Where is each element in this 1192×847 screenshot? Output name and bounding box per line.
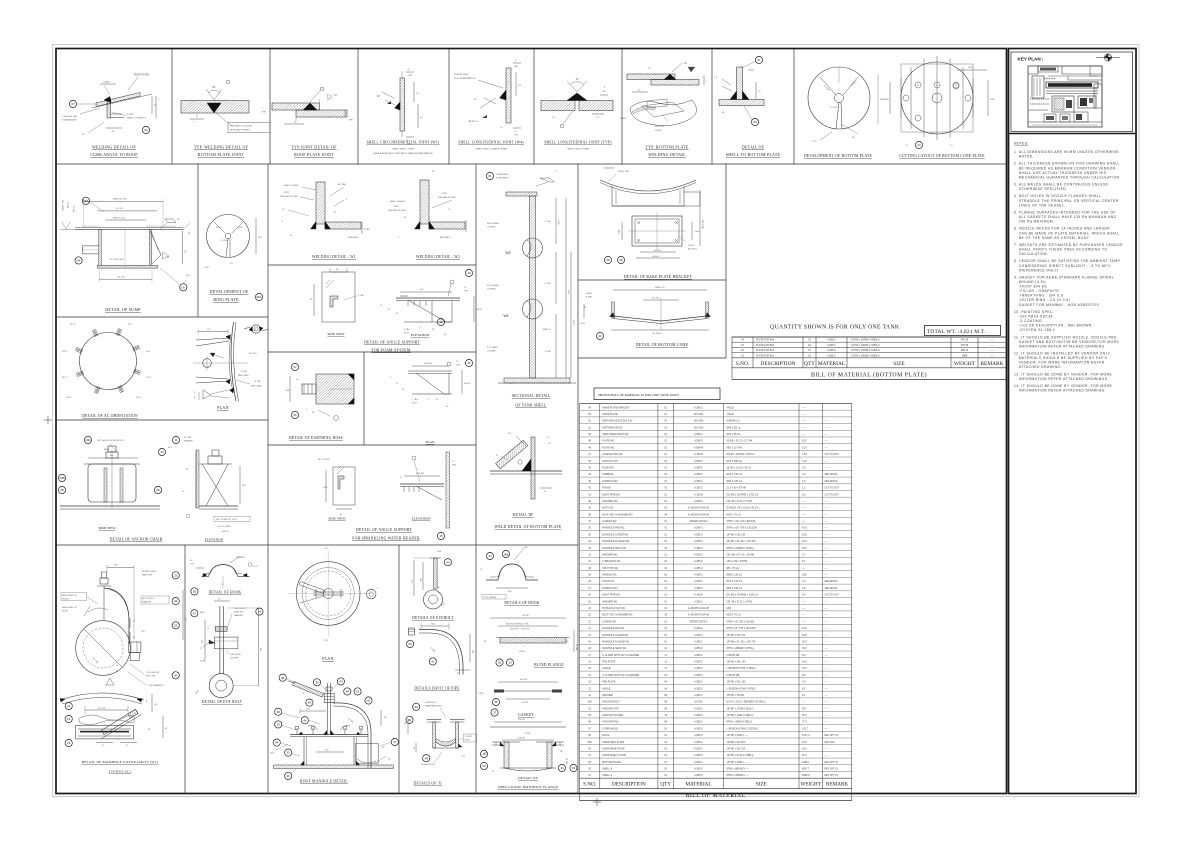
svg-text:40: 40 bbox=[116, 671, 118, 673]
svg-text:METAL AND REWELD: METAL AND REWELD bbox=[230, 129, 251, 132]
svg-text:THK: THK bbox=[349, 120, 354, 122]
svg-text:----: ---- bbox=[825, 501, 828, 503]
svg-text:(SINGLE BEVEL BUTT JOINT WITH: (SINGLE BEVEL BUTT JOINT WITH COMPLETE P… bbox=[373, 152, 433, 155]
svg-text:SEC. PLATE OD. 6?20: SEC. PLATE OD. 6?20 bbox=[216, 518, 237, 521]
svg-text:KORGED LG: KORGED LG bbox=[425, 702, 437, 704]
svg-text:CALCULATION.: CALCULATION. bbox=[1019, 252, 1049, 256]
svg-text:HOLE THK.: HOLE THK. bbox=[618, 171, 630, 173]
svg-text:24: 24 bbox=[258, 610, 262, 614]
svg-text:TYP. BOTTOM PLATE: TYP. BOTTOM PLATE bbox=[645, 145, 688, 150]
svg-text:05A: 05A bbox=[587, 741, 592, 744]
north arrow symbol bbox=[1096, 54, 1120, 61]
svg-text:SIDE VIEW: SIDE VIEW bbox=[327, 332, 345, 336]
svg-text:A 285-C: A 285-C bbox=[694, 547, 703, 550]
svg-text:8 THK: 8 THK bbox=[364, 229, 370, 231]
svg-text:SUMP SHELL PLATE: SUMP SHELL PLATE bbox=[602, 754, 626, 757]
svg-text:10THK x OD.720: 10THK x OD.720 bbox=[727, 747, 746, 750]
svg-text:LINES OF THE VESSEL.: LINES OF THE VESSEL. bbox=[1019, 203, 1066, 207]
svg-text:38: 38 bbox=[277, 710, 281, 714]
svg-text:FOR 50 NB: FOR 50 NB bbox=[727, 674, 740, 677]
svg-text:A 508-W: A 508-W bbox=[694, 446, 704, 449]
svg-text:-COLOR DESCRIPTION : MID BROWN: -COLOR DESCRIPTION : MID BROWN bbox=[1019, 324, 1092, 328]
svg-text:-HOOP 304 SS: -HOOP 304 SS bbox=[1019, 285, 1048, 289]
svg-text:GASKET-W1: GASKET-W1 bbox=[602, 620, 617, 623]
svg-text:Ø 625: Ø 625 bbox=[525, 733, 532, 735]
svg-text:52.8: 52.8 bbox=[802, 533, 807, 536]
svg-text:CUTTING LAYOUT OF BOTTOM CONE: CUTTING LAYOUT OF BOTTOM CONE PLATE bbox=[899, 154, 985, 158]
svg-text:GKT. 2 NOS.: GKT. 2 NOS. bbox=[318, 459, 330, 461]
svg-text:13. IT SHOULD BE DONE BY VENDO: 13. IT SHOULD BE DONE BY VENDOR, FOR MOR… bbox=[1014, 372, 1113, 376]
svg-text:TAPER 1:4: TAPER 1:4 bbox=[468, 120, 479, 123]
svg-text:OD. 85 x ID 22 x 3 THK: OD. 85 x ID 22 x 3 THK bbox=[727, 600, 753, 603]
detail: development of ring plate bbox=[204, 215, 262, 270]
svg-text:35: 35 bbox=[277, 723, 281, 727]
svg-text:Ø12 X 270 LG: Ø12 X 270 LG bbox=[727, 580, 743, 583]
detail: details of eyebolt (right cell) bbox=[410, 551, 446, 609]
svg-text:PAD PLATE: PAD PLATE bbox=[238, 374, 249, 377]
svg-text:SHELL: SHELL bbox=[620, 118, 627, 120]
svg-text:2988: 2988 bbox=[962, 354, 968, 357]
svg-text:INFORMATION REFER ATTACHED DRA: INFORMATION REFER ATTACHED DRAWING. bbox=[1019, 344, 1106, 348]
svg-text:A 285-C: A 285-C bbox=[827, 354, 836, 357]
detail: blind flange bbox=[484, 615, 577, 653]
svg-text:10 THK: 10 THK bbox=[66, 202, 68, 209]
svg-text:A 285-C: A 285-C bbox=[694, 440, 703, 443]
detail: detail of AC orientation bbox=[62, 324, 152, 399]
svg-text:10THK x 50L 140: 10THK x 50L 140 bbox=[727, 681, 747, 684]
svg-text:WOUND (4.5t): WOUND (4.5t) bbox=[1019, 280, 1046, 284]
left margin tick bbox=[44, 419, 52, 421]
svg-text:HUTELOCK NUT-W1: HUTELOCK NUT-W1 bbox=[602, 607, 626, 610]
svg-text:10: 10 bbox=[492, 771, 494, 773]
svg-text:SLEEVE PIPE-W2: SLEEVE PIPE-W2 bbox=[602, 453, 623, 456]
svg-text:ELEVATION: ELEVATION bbox=[205, 538, 224, 542]
svg-text:14THK x ID. 512 x OD.730: 14THK x ID. 512 x OD.730 bbox=[727, 640, 757, 643]
svg-text:(PAD WALL): (PAD WALL) bbox=[348, 236, 359, 239]
svg-text:A 285-C: A 285-C bbox=[694, 761, 703, 764]
svg-text:10A: 10A bbox=[85, 438, 90, 442]
svg-text:B3: B3 bbox=[566, 641, 568, 643]
svg-text:'W4': 'W4' bbox=[503, 314, 509, 318]
svg-text:6 THK: 6 THK bbox=[545, 221, 551, 223]
svg-text:16: 16 bbox=[482, 752, 486, 756]
svg-text:A 285-C: A 285-C bbox=[694, 487, 703, 490]
svg-text:SEE DETAIL: SEE DETAIL bbox=[825, 480, 839, 483]
svg-text:WASHER-W2: WASHER-W2 bbox=[602, 500, 618, 503]
svg-text:RING OD. 820: RING OD. 820 bbox=[113, 199, 127, 201]
svg-text:PLATE-W2: PLATE-W2 bbox=[602, 440, 615, 443]
grid line h y317 bbox=[56, 316, 268, 318]
balloons davit section bbox=[65, 715, 72, 722]
svg-text:BILL OF MATERIAL: BILL OF MATERIAL bbox=[685, 793, 745, 799]
svg-text:R=557: R=557 bbox=[216, 227, 222, 229]
svg-text:14. IT SHOULD BE DONE BY VENDO: 14. IT SHOULD BE DONE BY VENDOR, FOR MOR… bbox=[1014, 384, 1113, 388]
detail: shell longitudinal joint (W4) bbox=[454, 60, 522, 137]
detail: shell longitudinal joint (TYP) bbox=[541, 78, 613, 128]
svg-text:5THK x ID. 610 x OD.625: 5THK x ID. 610 x OD.625 bbox=[727, 620, 755, 623]
svg-text:4. BOLT HOLES IN NOZZLE FLANGE: 4. BOLT HOLES IN NOZZLE FLANGES SHALL bbox=[1014, 194, 1102, 198]
svg-text:L 50X50X6 6THK X 420LG: L 50X50X6 6THK X 420LG bbox=[727, 687, 756, 690]
svg-text:Ø5Ø x 130 LG: Ø5Ø x 130 LG bbox=[727, 574, 743, 577]
svg-text:26: 26 bbox=[193, 590, 197, 594]
svg-text:----: ---- bbox=[825, 534, 828, 536]
svg-text:12A INSR: 12A INSR bbox=[236, 556, 245, 559]
svg-text:HOLE: HOLE bbox=[465, 740, 471, 742]
svg-text:A 285-C: A 285-C bbox=[694, 540, 703, 543]
detail: typ welding detail of bottom plate joint bbox=[181, 80, 270, 132]
svg-text:19: 19 bbox=[67, 717, 71, 721]
svg-text:298.44: 298.44 bbox=[961, 349, 969, 352]
svg-text:SHELL THCK = 6 MM TO 8 MM: SHELL THCK = 6 MM TO 8 MM bbox=[476, 149, 507, 151]
svg-text:E: E bbox=[1106, 56, 1108, 60]
svg-text:DETAIL OF HOOK: DETAIL OF HOOK bbox=[209, 591, 242, 595]
svg-text:20: 20 bbox=[508, 661, 512, 665]
svg-text:OD. 530: OD. 530 bbox=[98, 708, 106, 710]
detail: angle support sprinkling - plan bbox=[390, 359, 473, 408]
svg-text:10 THK: 10 THK bbox=[221, 240, 228, 242]
svg-text:WASHER-W1: WASHER-W1 bbox=[602, 553, 618, 556]
svg-text:8.22: 8.22 bbox=[802, 440, 807, 443]
svg-text:(REFERENCE ONLY): (REFERENCE ONLY) bbox=[1019, 268, 1059, 272]
svg-text:#5 NOW: #5 NOW bbox=[465, 736, 472, 738]
svg-text:Ø20 x 35 LG: Ø20 x 35 LG bbox=[727, 433, 741, 436]
detail: anchor chair elevation bbox=[182, 450, 250, 533]
svg-text:19: 19 bbox=[572, 766, 576, 770]
svg-text:R600 .D.: R600 .D. bbox=[543, 329, 551, 331]
grid line h y445 mid bbox=[268, 444, 476, 446]
svg-text:NAME PLATE BRACKET: NAME PLATE BRACKET bbox=[602, 406, 630, 409]
svg-text:A 285-C: A 285-C bbox=[694, 741, 703, 744]
grid line: top row bottom bbox=[56, 163, 1006, 165]
svg-text:60°: 60° bbox=[212, 86, 216, 89]
svg-text:SUMP BASE PLATE: SUMP BASE PLATE bbox=[602, 747, 625, 750]
svg-text:EARTHING BOSS: EARTHING BOSS bbox=[602, 426, 622, 429]
svg-text:ROD NUT-W2: ROD NUT-W2 bbox=[602, 460, 618, 463]
svg-text:ROOF PLATE JOINT: ROOF PLATE JOINT bbox=[294, 152, 334, 157]
svg-text:157.5': 157.5' bbox=[136, 397, 142, 399]
svg-text:SIDE VIEW: SIDE VIEW bbox=[98, 526, 116, 530]
svg-text:----: ---- bbox=[990, 339, 993, 342]
svg-text:59: 59 bbox=[619, 258, 623, 262]
svg-text:A 106-B: A 106-B bbox=[694, 453, 703, 456]
svg-text:DETAIL OF AC ORIENTATION: DETAIL OF AC ORIENTATION bbox=[82, 414, 138, 418]
svg-text:SHELL-1: SHELL-1 bbox=[602, 774, 613, 777]
svg-text:05: 05 bbox=[182, 285, 186, 289]
svg-text:PLATE-W2: PLATE-W2 bbox=[602, 446, 615, 449]
svg-text:10THK x 50L 140: 10THK x 50L 140 bbox=[727, 661, 747, 664]
svg-text:TOP FLANGE: TOP FLANGE bbox=[484, 596, 497, 599]
svg-text:----: ---- bbox=[825, 748, 828, 750]
svg-text:HANDLE-W1: HANDLE-W1 bbox=[602, 574, 617, 577]
svg-text:05A: 05A bbox=[83, 199, 88, 203]
svg-text:4 NOS.: 4 NOS. bbox=[688, 245, 695, 247]
detail: typ bottom plate welding detail bbox=[620, 62, 708, 132]
svg-text:SHELL CIRCUMFERENTIAL JOINT (W: SHELL CIRCUMFERENTIAL JOINT (W1) bbox=[367, 141, 440, 145]
svg-text:10THK x 2650 x ----: 10THK x 2650 x ---- bbox=[727, 761, 749, 764]
svg-text:Q 8 HOLE FOR: Q 8 HOLE FOR bbox=[146, 672, 160, 674]
detail: welding detail W1 bbox=[280, 182, 370, 239]
svg-text:----: ---- bbox=[825, 648, 828, 650]
svg-text:270': 270' bbox=[324, 640, 329, 642]
svg-text:----: ---- bbox=[825, 608, 828, 610]
svg-text:11: 11 bbox=[174, 438, 177, 442]
svg-text:34: 34 bbox=[560, 766, 564, 770]
svg-text:280: 280 bbox=[419, 578, 421, 581]
svg-text:R= #120: R= #120 bbox=[249, 353, 258, 355]
svg-text:Ø12 X 370 LG: Ø12 X 370 LG bbox=[727, 473, 743, 476]
svg-text:6171.3: 6171.3 bbox=[802, 734, 810, 737]
svg-text:10THK x 2000M X 7936LG: 10THK x 2000M X 7936LG bbox=[851, 344, 880, 347]
svg-text:ANCHOR GUSSET: ANCHOR GUSSET bbox=[602, 714, 624, 717]
svg-text:33.6: 33.6 bbox=[802, 747, 807, 750]
svg-text:33: 33 bbox=[287, 751, 291, 755]
svg-text:22: 22 bbox=[494, 700, 498, 704]
svg-text:----: ---- bbox=[802, 620, 805, 623]
svg-text:A 285-C: A 285-C bbox=[694, 774, 703, 777]
svg-text:RF. PAD: RF. PAD bbox=[338, 183, 347, 186]
detail: pad plate plan (curved) bbox=[193, 322, 262, 401]
svg-text:0.82: 0.82 bbox=[802, 574, 807, 577]
svg-text:02: 02 bbox=[144, 128, 148, 132]
svg-text:WELD DETAIL OF BOTTOM PLATE: WELD DETAIL OF BOTTOM PLATE bbox=[495, 525, 562, 529]
svg-text:450: 450 bbox=[457, 673, 460, 675]
svg-text:WELDING DETAIL : W2: WELDING DETAIL : W2 bbox=[416, 255, 460, 259]
svg-text:-3 COATING: -3 COATING bbox=[1019, 319, 1042, 323]
svg-text:DO.5M x SCH40E x 1150 LG: DO.5M x SCH40E x 1150 LG bbox=[727, 594, 759, 597]
svg-text:57: 57 bbox=[293, 365, 297, 369]
svg-text:-1.82': -1.82' bbox=[204, 267, 210, 269]
svg-text:WELDING DETAIL : W1: WELDING DETAIL : W1 bbox=[312, 255, 356, 259]
svg-text:WELDING DETAIL OF: WELDING DETAIL OF bbox=[92, 145, 137, 150]
svg-text:PAD PLATE: PAD PLATE bbox=[602, 681, 615, 684]
detail: angle support foam - elevation bbox=[380, 269, 483, 336]
svg-text:35THK x OD.88: 35THK x OD.88 bbox=[727, 694, 745, 697]
svg-text:9. GASKET FOR ASME STANDARD FL: 9. GASKET FOR ASME STANDARD FLANGE SPIRA… bbox=[1014, 275, 1114, 279]
svg-text:----: ---- bbox=[825, 682, 828, 684]
svg-text:8 THK: 8 THK bbox=[241, 371, 247, 373]
svg-text:ROOF PLATE: ROOF PLATE bbox=[134, 74, 149, 77]
svg-text:SLOT: SLOT bbox=[412, 403, 418, 405]
svg-text:OD. 750x6 THK: OD. 750x6 THK bbox=[110, 259, 125, 261]
svg-text:1.99: 1.99 bbox=[802, 453, 807, 456]
svg-text:PLATE FOR 83A: PLATE FOR 83A bbox=[756, 344, 774, 347]
svg-text:Ø40 X 50 Lg: Ø40 X 50 Lg bbox=[727, 426, 741, 429]
svg-text:1.97': 1.97' bbox=[812, 141, 817, 143]
svg-text:BE OF THE SAME AS VESSEL BODY.: BE OF THE SAME AS VESSEL BODY. bbox=[1019, 236, 1090, 240]
svg-text:MANHOLE NECK-W2: MANHOLE NECK-W2 bbox=[602, 547, 627, 550]
svg-text:SS 504: SS 504 bbox=[695, 701, 704, 704]
svg-text:49: 49 bbox=[408, 718, 412, 722]
svg-text:09: 09 bbox=[156, 488, 160, 492]
svg-text:WASHER.: WASHER. bbox=[234, 614, 244, 617]
svg-text:4037.7: 4037.7 bbox=[802, 768, 810, 771]
svg-text:2040 3°°: 2040 3°° bbox=[930, 133, 938, 135]
svg-text:3 HEX NUTS: 3 HEX NUTS bbox=[234, 608, 246, 610]
svg-text:FULL PENETRATION: FULL PENETRATION bbox=[454, 77, 476, 80]
svg-text:CURB ANGLE: CURB ANGLE bbox=[62, 119, 77, 122]
svg-text:1.20: 1.20 bbox=[802, 460, 807, 463]
svg-text:625 OD.: 625 OD. bbox=[520, 679, 528, 681]
svg-text:----: ---- bbox=[825, 434, 828, 436]
svg-text:M20 X 70 LG: M20 X 70 LG bbox=[727, 614, 741, 617]
svg-text:247.5': 247.5' bbox=[62, 377, 68, 379]
svg-text:5THK x OD. 510 x BO.625: 5THK x OD. 510 x BO.625 bbox=[727, 520, 756, 523]
boxed note: shown bill of material is for one tank only bbox=[594, 388, 720, 400]
svg-text:250 Ra MAXIMUM.: 250 Ra MAXIMUM. bbox=[1019, 220, 1055, 224]
svg-text:DN 65 x SCH40 x 200 LG: DN 65 x SCH40 x 200 LG bbox=[727, 453, 755, 456]
svg-text:DESCRIPTION: DESCRIPTION bbox=[612, 782, 646, 788]
svg-text:SEE DETAIL OF: SEE DETAIL OF bbox=[62, 594, 77, 597]
svg-text:STRADDLE THE PRINCIPAL OR VERT: STRADDLE THE PRINCIPAL OR VERTICAL CENTE… bbox=[1019, 199, 1119, 203]
svg-text:01: 01 bbox=[757, 58, 761, 62]
svg-text:A 285-C: A 285-C bbox=[694, 640, 703, 643]
svg-text:INFORMATION REFER ATTACHED DRA: INFORMATION REFER ATTACHED DRAWING. bbox=[1019, 389, 1106, 393]
detail: typ joint detail of roof plate joint bbox=[262, 87, 354, 124]
svg-text:A 285-C: A 285-C bbox=[694, 580, 703, 583]
svg-text:45: 45 bbox=[408, 642, 412, 646]
svg-text:(45): (45) bbox=[141, 631, 145, 633]
svg-text:690/TRG: 690/TRG bbox=[416, 473, 425, 475]
detail: angle support foam - side view bbox=[310, 268, 364, 322]
grid line v x185 lower bbox=[184, 545, 186, 794]
svg-text:COURSE: COURSE bbox=[487, 289, 496, 291]
svg-text:10B: 10B bbox=[59, 476, 64, 480]
svg-text:14THK x ID. 512 x OD.130: 14THK x ID. 512 x OD.130 bbox=[727, 540, 757, 543]
svg-text:52.8: 52.8 bbox=[802, 634, 807, 637]
svg-text:A 285-C: A 285-C bbox=[694, 667, 703, 670]
svg-text:44: 44 bbox=[303, 718, 307, 722]
svg-text:(HD.2): (HD.2) bbox=[222, 531, 229, 533]
svg-text:6 THK: 6 THK bbox=[545, 283, 551, 285]
svg-text:DAVIT PIPE-W2: DAVIT PIPE-W2 bbox=[602, 493, 620, 496]
svg-text:----: ---- bbox=[825, 702, 828, 704]
svg-text:----: ---- bbox=[802, 420, 805, 423]
grid line h y352 mid bbox=[268, 351, 476, 353]
svg-text:01: 01 bbox=[488, 174, 492, 178]
svg-text:255: 255 bbox=[184, 250, 186, 253]
grid line v x476 bbox=[475, 164, 477, 794]
svg-text:3. ALL WELDS SHALL BE CONTINUO: 3. ALL WELDS SHALL BE CONTINUOUS UNLESS bbox=[1014, 183, 1109, 187]
svg-text:----: ---- bbox=[825, 441, 828, 443]
svg-text:2 1/2: 2 1/2 bbox=[461, 756, 465, 758]
svg-text:30: 30 bbox=[174, 673, 178, 677]
svg-text:8: 8 bbox=[194, 392, 195, 394]
svg-text:DETAIL OF SUMP: DETAIL OF SUMP bbox=[105, 307, 141, 312]
svg-text:----: ---- bbox=[825, 561, 828, 563]
table: bill of material (bottom plate) bbox=[732, 337, 1006, 380]
svg-text:-OUTER RING : CS (H 0.6): -OUTER RING : CS (H 0.6) bbox=[1019, 298, 1071, 302]
svg-text:10 THK: 10 THK bbox=[830, 107, 838, 109]
svg-text:PLAN: PLAN bbox=[426, 440, 435, 444]
svg-text:100 x 130 x 10THK: 100 x 130 x 10THK bbox=[727, 560, 748, 563]
svg-text:M62 x 10 THK: M62 x 10 THK bbox=[727, 446, 743, 449]
svg-text:8: 8 bbox=[194, 397, 195, 399]
svg-text:A-193-B7/A 194-2H: A-193-B7/A 194-2H bbox=[688, 507, 709, 510]
svg-text:REF. SHT 03: REF. SHT 03 bbox=[825, 762, 839, 764]
svg-text:DETAIL OF MANHOLE COVER DAVIT: DETAIL OF MANHOLE COVER DAVIT (W1) bbox=[82, 760, 159, 764]
svg-text:101.7: 101.7 bbox=[802, 727, 809, 730]
svg-text:SECTIONAL DETAIL: SECTIONAL DETAIL bbox=[512, 394, 551, 398]
svg-text:48: 48 bbox=[346, 690, 350, 694]
detail: cutting layout of bottom cone plate circle bbox=[884, 56, 995, 147]
svg-text:----: ---- bbox=[802, 500, 805, 503]
svg-text:MANHOLE FLANGE-W1: MANHOLE FLANGE-W1 bbox=[602, 640, 630, 643]
svg-text:08: 08 bbox=[60, 488, 64, 492]
table: bill of material (main) bbox=[580, 404, 852, 801]
svg-text:22.5': 22.5' bbox=[128, 324, 133, 326]
svg-text:SNAP HEAD RIVET-W2: SNAP HEAD RIVET-W2 bbox=[602, 433, 629, 436]
svg-text:HOOK-W1: HOOK-W1 bbox=[602, 580, 614, 583]
main drawing frame bbox=[56, 49, 1007, 794]
svg-text:REF. SHT 01: REF. SHT 01 bbox=[825, 769, 839, 771]
svg-text:SHALL VERIFY THESE ONES ACCORD: SHALL VERIFY THESE ONES ACCORDING TO bbox=[1019, 248, 1108, 252]
svg-text:05A: 05A bbox=[256, 295, 261, 299]
svg-text:A 106-B: A 106-B bbox=[694, 594, 703, 597]
svg-text:A 285-C: A 285-C bbox=[694, 600, 703, 603]
svg-text:SIZE: SIZE bbox=[893, 361, 905, 367]
svg-text:DETAIL OF ANCHOR CHAIR: DETAIL OF ANCHOR CHAIR bbox=[110, 538, 163, 542]
svg-text:ATTACHED DRAWING.: ATTACHED DRAWING. bbox=[1019, 365, 1062, 369]
svg-text:12THK x 110M X 380LG: 12THK x 110M X 380LG bbox=[727, 714, 753, 717]
svg-text:FOR 80 NB: FOR 80 NB bbox=[727, 654, 740, 657]
detail: bottom cone bbox=[580, 287, 711, 335]
svg-text:6D.58 x 10.22 x 10 THK: 6D.58 x 10.22 x 10 THK bbox=[727, 440, 753, 443]
svg-text:ID. 740: ID. 740 bbox=[652, 298, 660, 300]
svg-text:NUTS-W2: NUTS-W2 bbox=[602, 507, 614, 510]
svg-text:A 285-C: A 285-C bbox=[694, 727, 703, 730]
svg-text:SEE DETAIL: SEE DETAIL bbox=[825, 473, 839, 476]
grid line v x726 bbox=[725, 164, 727, 358]
svg-text:43: 43 bbox=[339, 680, 343, 684]
svg-text:33: 33 bbox=[404, 723, 406, 725]
svg-text:CUT TO SUIT: CUT TO SUIT bbox=[825, 494, 840, 496]
svg-text:35THK x 175M X 35CLG: 35THK x 175M X 35CLG bbox=[727, 707, 754, 710]
svg-text:HD.3: HD.3 bbox=[617, 230, 619, 234]
svg-text:A 285-C: A 285-C bbox=[694, 560, 703, 563]
svg-text:34: 34 bbox=[275, 741, 279, 745]
svg-text:SEE DETAIL: SEE DETAIL bbox=[825, 580, 839, 583]
detail: details of hook (strip) bbox=[480, 547, 538, 599]
svg-text:03: 03 bbox=[598, 334, 602, 338]
svg-text:42: 42 bbox=[367, 699, 371, 703]
detail: detail of sump bbox=[60, 199, 191, 285]
svg-text:10A: 10A bbox=[587, 701, 592, 704]
svg-text:03: 03 bbox=[753, 120, 757, 124]
svg-text:1. ALL DIMENSIONS ARE IN MM UN: 1. ALL DIMENSIONS ARE IN MM UNLESS OTHER… bbox=[1014, 150, 1119, 154]
svg-text:----: ---- bbox=[825, 554, 828, 556]
grid line h y545 bbox=[56, 544, 578, 546]
svg-text:13: 13 bbox=[467, 271, 471, 275]
svg-text:2 TBol: 2 TBol bbox=[412, 399, 418, 401]
svg-text:608 OD.: 608 OD. bbox=[518, 738, 526, 740]
svg-text:2. ALL THICKNESS SHOWN ON THIS: 2. ALL THICKNESS SHOWN ON THIS DRAWING S… bbox=[1014, 162, 1120, 166]
grid line v x399 lower bbox=[398, 545, 400, 794]
svg-text:MANHOLE FLANGE-W2: MANHOLE FLANGE-W2 bbox=[602, 540, 630, 543]
svg-text:DESCRIPTION: DESCRIPTION bbox=[760, 361, 795, 367]
svg-text:10: 10 bbox=[160, 450, 164, 454]
svg-text:-INNER RING : 304 S.S: -INNER RING : 304 S.S bbox=[1019, 294, 1064, 298]
svg-text:----: ---- bbox=[825, 722, 828, 724]
svg-text:CUT TO SUIT: CUT TO SUIT bbox=[825, 595, 840, 597]
svg-text:35, 80 x 10.22 x 90 LG: 35, 80 x 10.22 x 90 LG bbox=[727, 467, 752, 470]
svg-text:202.5': 202.5' bbox=[66, 397, 72, 399]
svg-text:MANHOLE NECK-W1: MANHOLE NECK-W1 bbox=[602, 647, 627, 650]
svg-text:DEVELOPMENT OF: DEVELOPMENT OF bbox=[209, 289, 249, 294]
svg-text:36: 36 bbox=[287, 774, 291, 778]
svg-text:REF. SHT 03: REF. SHT 03 bbox=[825, 735, 839, 737]
svg-text:DO.5M x SCH40E x 1700 LG: DO.5M x SCH40E x 1700 LG bbox=[727, 493, 759, 496]
grid line h y420 bbox=[56, 419, 268, 421]
